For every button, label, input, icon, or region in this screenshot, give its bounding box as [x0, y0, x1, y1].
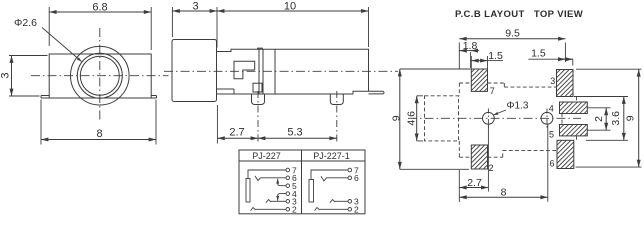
- svg-text:9.5: 9.5: [505, 28, 520, 40]
- hole circle (phi 2.6): [80, 56, 119, 95]
- pad 5: [560, 125, 588, 136]
- svg-text:P.C.B LAYOUT TOP VIEW: P.C.B LAYOUT TOP VIEW: [455, 9, 583, 20]
- table frame: [239, 150, 365, 214]
- schematic PJ-227: [246, 165, 297, 214]
- dimension 6.8: [49, 2, 151, 51]
- pad 3: [557, 70, 574, 97]
- wire to pin 2: [320, 208, 349, 210]
- ring contact spring: [321, 176, 327, 181]
- dimension 9 left: [391, 69, 471, 169]
- svg-text:6: 6: [550, 159, 555, 169]
- svg-text:9: 9: [625, 115, 637, 121]
- svg-text:2: 2: [593, 116, 605, 122]
- pin 2: [348, 208, 352, 212]
- dimension 1.5 left: [471, 50, 503, 69]
- hole 2 centerline cross: [546, 109, 548, 129]
- pin 7: [348, 168, 352, 172]
- wire to pin 6: [327, 177, 349, 179]
- dimension 2: [587, 108, 610, 130]
- svg-text:PJ-227-1: PJ-227-1: [313, 151, 350, 161]
- tip contact spring 2: [251, 208, 256, 211]
- hole 2 (phi 1.3): [541, 112, 553, 124]
- front view flange: [41, 96, 157, 99]
- svg-text:3: 3: [192, 1, 198, 13]
- side bushing: [172, 40, 217, 102]
- side internal partition lines: [259, 49, 275, 94]
- svg-text:4.6: 4.6: [406, 111, 418, 126]
- wire to pin 3: [271, 200, 286, 202]
- svg-text:2: 2: [489, 163, 494, 173]
- dimension 9.5: [459, 28, 565, 69]
- hole 1 extension line: [487, 124, 489, 191]
- svg-text:1.5: 1.5: [531, 48, 546, 60]
- wire to pin 2: [256, 208, 287, 210]
- pin 7: [286, 168, 290, 172]
- dimension 3.6: [574, 97, 628, 141]
- side leg pin 1: [252, 94, 265, 105]
- hole 1 (phi 1.3): [483, 112, 495, 124]
- sleeve contact S2: [309, 180, 314, 203]
- front vertical centerline: [99, 28, 101, 121]
- table divider: [301, 150, 303, 214]
- side contact hook: [234, 61, 255, 79]
- dimension 3 (bushing length): [172, 1, 217, 48]
- front view body: [49, 54, 151, 98]
- leg 2 centerline: [336, 91, 338, 144]
- hole 2 extension line: [547, 124, 549, 202]
- dimension 8: [41, 100, 156, 145]
- sleeve contact S1: [246, 179, 250, 203]
- svg-text:8: 8: [96, 128, 102, 140]
- leg 1 centerline: [257, 91, 259, 144]
- dimension 5.3 (pin spacing): [258, 127, 337, 139]
- svg-text:3: 3: [0, 72, 12, 78]
- svg-text:5.3: 5.3: [287, 127, 302, 139]
- dimension 2.7 (pin 1 offset): [217, 105, 258, 144]
- hole 1 centerline cross: [487, 109, 489, 129]
- dimension 4.6: [406, 96, 423, 141]
- tip contact spring 3: [266, 200, 271, 203]
- svg-text:1.5: 1.5: [488, 50, 503, 62]
- dimension 8 pcb: [459, 187, 548, 199]
- dimension 3 (front height): [0, 56, 48, 97]
- svg-text:3.6: 3.6: [610, 111, 622, 126]
- svg-text:2.7: 2.7: [229, 127, 244, 139]
- pad 6: [557, 140, 574, 168]
- svg-text:6: 6: [354, 173, 359, 183]
- dimension 1.5 right: [528, 48, 573, 66]
- svg-text:2: 2: [292, 205, 297, 215]
- svg-text:Φ2.6: Φ2.6: [14, 17, 37, 29]
- bushing ring circle: [77, 53, 122, 98]
- svg-text:2.7: 2.7: [467, 177, 482, 189]
- svg-text:5: 5: [549, 130, 554, 140]
- pin 2: [286, 208, 290, 212]
- side leg pin 2: [330, 94, 343, 105]
- dimension 10 (body length): [217, 1, 369, 48]
- side body internal step: [217, 89, 235, 94]
- label phi1.3 with leader: [493, 101, 528, 116]
- dimension 9 right: [576, 69, 642, 167]
- svg-text:8: 8: [501, 187, 507, 199]
- dimension 2.7 pcb: [459, 170, 488, 202]
- pin 6: [348, 176, 352, 180]
- pad 7: [471, 69, 487, 91]
- svg-text:1.8: 1.8: [463, 40, 478, 52]
- side body outline: [217, 48, 385, 94]
- dimension 1.8: [459, 40, 479, 68]
- label phi2.6 with leader: [14, 17, 82, 62]
- svg-text:PJ-227: PJ-227: [252, 151, 281, 161]
- wire to pin 3: [335, 200, 348, 202]
- schematic PJ-227-1: [309, 165, 359, 214]
- pin 5: [286, 184, 290, 188]
- pin 6: [286, 176, 290, 180]
- tip contact spring 3: [330, 200, 335, 203]
- front horizontal centerline: [31, 75, 169, 77]
- side horizontal centerline: [164, 70, 398, 72]
- tip contact spring 2: [315, 208, 320, 211]
- svg-text:2: 2: [354, 205, 359, 215]
- svg-text:6.8: 6.8: [92, 2, 107, 14]
- side small block: [253, 83, 262, 92]
- pin 3: [286, 200, 290, 204]
- wire to pin 6: [261, 177, 287, 179]
- pin 3: [348, 200, 352, 204]
- pad 4: [560, 102, 588, 114]
- svg-text:4: 4: [549, 104, 554, 114]
- svg-text:Φ1.3: Φ1.3: [507, 101, 529, 112]
- ring contact spring: [255, 176, 261, 181]
- svg-text:9: 9: [391, 115, 403, 121]
- wire sleeve to pin 7: [248, 170, 286, 179]
- wire to pin 4 with switch arm to 3: [278, 194, 286, 201]
- pin 4: [286, 192, 290, 196]
- pad 2: [471, 145, 487, 169]
- svg-text:7: 7: [490, 86, 495, 96]
- svg-text:10: 10: [284, 1, 296, 13]
- body footprint dashed outline: [459, 83, 576, 157]
- bushing footprint dashed: [425, 96, 459, 141]
- table header line: [239, 160, 365, 162]
- wire to pin 5 with switch arm to 6: [278, 179, 286, 186]
- svg-text:3: 3: [550, 76, 555, 86]
- wire sleeve to pin 7: [311, 170, 348, 180]
- bushing outer circle: [71, 46, 130, 105]
- pcb horizontal centerline: [408, 117, 581, 119]
